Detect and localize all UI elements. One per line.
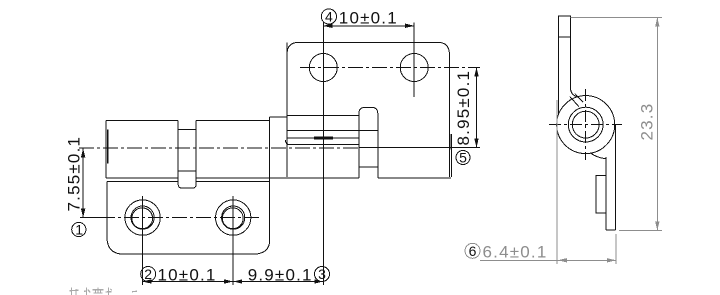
bottom holes center line horizontal: [100, 217, 262, 219]
curl band lower line: [287, 137, 359, 139]
svg-text:2: 2: [144, 266, 152, 282]
dimension set black: [81, 24, 479, 284]
bottom hole left inner: [132, 208, 153, 229]
side view: bottom edge: [606, 229, 616, 231]
side view: leaf wedge line 1: [570, 97, 579, 107]
curl band top line: [287, 115, 359, 117]
bottom hole right outer: [216, 200, 251, 235]
svg-text:23.3: 23.3: [638, 103, 657, 141]
svg-text:5: 5: [459, 150, 467, 166]
dim bottom: dimension line: [143, 281, 324, 283]
svg-text:10±0.1: 10±0.1: [158, 266, 217, 285]
bottom hole right vertical line: [232, 196, 234, 285]
svg-text:3: 3: [318, 266, 326, 282]
dim 8.95: dimension line: [476, 68, 478, 148]
center line vertical through left hole (extends to bottom dim): [322, 22, 324, 286]
side view: knuckle mid circle: [568, 107, 603, 142]
partial chinese note 技术要求 (clipped at bottom): [70, 287, 138, 295]
curl right edge: [450, 134, 452, 177]
step top edge between barrel and plate: [270, 116, 287, 118]
svg-text:8.95±0.1: 8.95±0.1: [454, 70, 473, 146]
barrel top edge left segment: [106, 119, 178, 121]
front curl plate top edge with left rounded corner: [286, 140, 359, 145]
barrel axis center line: [79, 147, 360, 149]
barrel right end / bottom plate right edge: [253, 117, 270, 254]
bottom hole right counterbore: [222, 206, 245, 229]
extension line right of tab (8.95 bottom): [359, 146, 480, 148]
svg-text:1: 1: [75, 222, 83, 238]
dim 6.4 left extension line: [556, 100, 558, 264]
svg-text:9.9±0.1: 9.9±0.1: [248, 266, 313, 285]
balloon 4: [72, 9, 470, 282]
curl band middle line: [287, 130, 378, 132]
pin end thick edge: [107, 130, 109, 164]
top plate outline: [287, 42, 449, 177]
balloon 6 gray: [465, 243, 480, 258]
barrel left end face: [105, 120, 107, 178]
side view: back leaf bar: [559, 16, 578, 115]
back plate left edge: [286, 42, 288, 177]
7.55 extension at hole line: [80, 216, 110, 218]
side view: bar joint line: [559, 36, 571, 38]
side view: knuckle outer circle: [557, 96, 615, 154]
bottom hole left outer: [125, 200, 160, 235]
bottom hole left counterbore: [131, 206, 154, 229]
dim 10 top: dimension line: [323, 25, 414, 27]
bottom hole left vertical line: [142, 196, 144, 285]
side view: front leaf right edge: [615, 125, 617, 230]
dim 23.3 bottom extension line: [619, 229, 662, 231]
side view: knuckle inner circle: [572, 111, 599, 138]
dim 10 top arrows: [323, 24, 414, 28]
dim 6.4 right extension line: [615, 234, 617, 264]
back plate right edge lower part: [449, 134, 451, 150]
barrel top edge right segment: [196, 119, 269, 121]
dim 7.55: dimension line: [82, 148, 84, 217]
side view: knuckle center cross vertical: [585, 89, 587, 160]
dim 23.3 dimension line: [656, 18, 658, 231]
top plate hole left: [309, 54, 337, 82]
dome tab: [359, 107, 378, 178]
top plate holes center line horizontal: [300, 67, 480, 69]
side view: leaf wedge line 2: [575, 94, 583, 103]
barrel strip top line: [178, 129, 196, 131]
dimension set gray: [480, 18, 662, 265]
barrel strip lower line: [178, 170, 196, 172]
center line vertical through right hole: [413, 23, 415, 98]
dim 6.4 dimension line: [480, 259, 616, 261]
svg-text:7.55±0.1: 7.55±0.1: [64, 136, 83, 212]
barrel bottom edge long line: [106, 177, 451, 179]
side view: front leaf left edge: [605, 157, 607, 230]
dim 23.3 top extension line: [570, 17, 662, 19]
svg-text:6: 6: [469, 243, 477, 259]
side view: bump rectangle: [596, 176, 606, 213]
top plate hole right: [400, 54, 428, 82]
side view: fillet from knuckle to front leaf: [591, 153, 606, 158]
svg-text:4: 4: [325, 9, 333, 25]
bottom hole right inner: [222, 208, 243, 229]
barrel strip left edge: [178, 120, 196, 188]
side view: knuckle center cross horizontal: [549, 124, 622, 126]
svg-text:6.4±0.1: 6.4±0.1: [483, 243, 548, 262]
weld bar thick segment: [314, 136, 333, 139]
svg-text:10±0.1: 10±0.1: [339, 9, 398, 28]
dome tab internal line: [359, 166, 378, 168]
bottom plate outline: [107, 182, 270, 255]
